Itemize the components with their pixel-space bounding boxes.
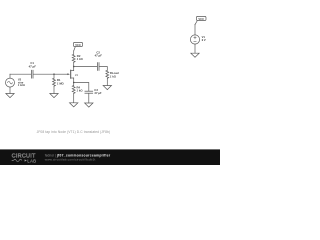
wire V2 to C1 [10, 73, 31, 75]
ground under RLoad [103, 86, 111, 90]
resistor R2 [72, 51, 75, 67]
label J1 [75, 73, 78, 77]
footer title text [45, 153, 111, 161]
capacitor C3 [85, 91, 93, 93]
net flag VCC above R2 [73, 42, 82, 51]
svg-text:1 MΩ: 1 MΩ [57, 81, 65, 85]
ground under R4 [70, 103, 78, 107]
ground under R1 [50, 94, 58, 98]
voltage source V1 9V [190, 25, 199, 54]
caption text [37, 130, 111, 134]
label V1 9 V [202, 35, 206, 42]
resistor R1 [53, 74, 56, 93]
wire gate node to J1 gate [54, 73, 68, 75]
svg-text:1 kΩ: 1 kΩ [77, 57, 84, 61]
node drain junction [73, 66, 74, 67]
ground under V2 [6, 94, 14, 98]
label VCC [198, 17, 204, 21]
capacitor C2 [97, 63, 99, 71]
label R4 1 kOhm [77, 85, 84, 92]
resistor RLoad [106, 70, 109, 85]
label V2 sine 1 kHz [18, 78, 26, 87]
CircuitLab logo [12, 154, 37, 164]
svg-text:LAB: LAB [27, 159, 36, 164]
node gate junction [53, 74, 54, 75]
label C1 47 uF [28, 61, 36, 68]
wire drain node to C2 [74, 66, 97, 68]
voltage source V2 (sine input) [6, 74, 15, 93]
label C3 47 uF [93, 88, 101, 95]
label R2 1 kOhm [77, 54, 84, 61]
svg-text:47 µF: 47 µF [93, 91, 101, 95]
footer bar [0, 149, 220, 165]
svg-text:www.circuitlab.com/circuit/9cd: www.circuitlab.com/circuit/9cdb3t [45, 158, 96, 162]
ground under V1 [191, 53, 199, 57]
svg-text:1 kHz: 1 kHz [18, 83, 26, 87]
label VCC [75, 43, 81, 47]
ground under C3 [85, 103, 93, 107]
wire C3 to ground [88, 94, 90, 103]
label RLoad 1 kOhm [110, 71, 119, 78]
svg-text:1 kΩ: 1 kΩ [110, 74, 117, 78]
svg-text:9 V: 9 V [202, 38, 206, 42]
wire source node to C3 [74, 83, 89, 91]
svg-text:J1: J1 [75, 73, 78, 77]
svg-text:VCC: VCC [198, 17, 204, 21]
svg-text:JF08 tap into Node (VT1) D.C t: JF08 tap into Node (VT1) D.C translated … [37, 130, 111, 134]
svg-text:47 µF: 47 µF [94, 54, 102, 58]
label R1 1 MOhm [57, 78, 65, 85]
svg-text:VCC: VCC [75, 43, 81, 47]
svg-text:47 µF: 47 µF [28, 64, 36, 68]
svg-text:V1: V1 [202, 35, 206, 39]
resistor R4 [72, 83, 75, 103]
node source junction [73, 82, 74, 83]
capacitor C1 [31, 70, 33, 78]
wire C1 to gate node [33, 73, 54, 75]
wire C2 to RLoad [99, 67, 107, 71]
svg-text:1 kΩ: 1 kΩ [77, 89, 84, 93]
net flag VCC above V1 [195, 16, 206, 24]
transistor J1 N-JFET [67, 67, 73, 83]
label C2 47 uF [94, 50, 102, 57]
